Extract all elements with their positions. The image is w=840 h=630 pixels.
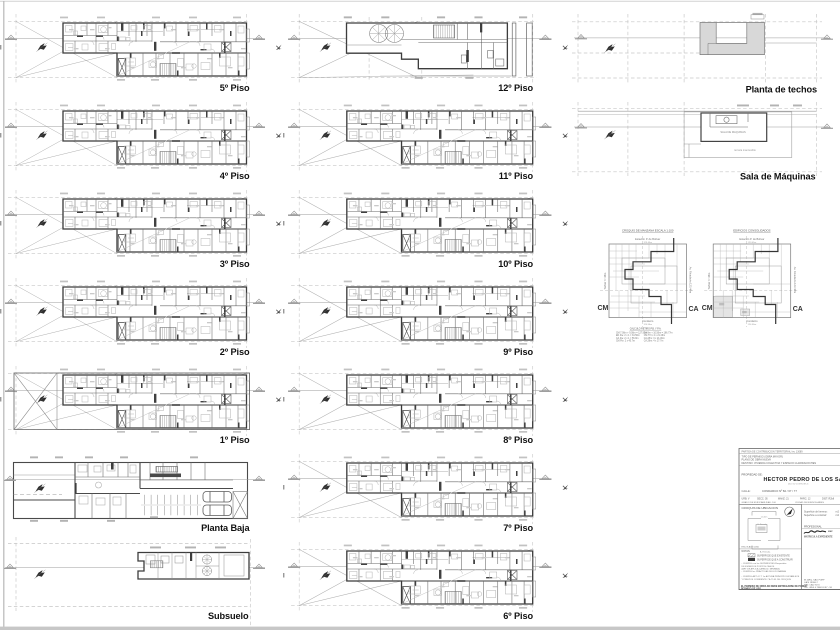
floor plan 8º Piso [283, 366, 568, 436]
svg-text:PARC: 12: PARC: 12 [800, 498, 811, 501]
techos gray roof block [700, 23, 765, 55]
svg-text:2º Piso: 2º Piso [220, 347, 250, 357]
svg-text:Condarco: Condarco [746, 319, 758, 323]
svg-text:CIUDAD DE BUENOS AIRES: CIUDAD DE BUENOS AIRES [795, 501, 824, 504]
Planta Baja lot outline [14, 463, 248, 519]
svg-text:Subsuelo: Subsuelo [208, 611, 249, 621]
svg-text:MATRICULA EXPEDIENTE: MATRICULA EXPEDIENTE [804, 535, 833, 538]
svg-text:CA.28m: 4 x 27.7m: CA.28m: 4 x 27.7m [644, 339, 664, 342]
svg-text:MANZ: 21: MANZ: 21 [778, 498, 789, 501]
floor plan 9º Piso [283, 278, 568, 348]
svg-text:Planta de techos: Planta de techos [746, 85, 817, 95]
croquis de manzana (left) [598, 228, 699, 327]
floor plan 7º Piso [283, 454, 568, 524]
sheet border top edge [0, 0, 840, 2]
floor plan 11º Piso [283, 102, 568, 172]
Planta Baja car 1 [203, 492, 232, 503]
svg-text:CA:9m + 10.56m = 166.77m: CA:9m + 10.56m = 166.77m [644, 332, 673, 335]
svg-text:7º Piso: 7º Piso [503, 523, 533, 533]
svg-text:SUPERFICIE QUE EXISTENTE: SUPERFICIE QUE EXISTENTE [757, 555, 790, 557]
svg-text:- CUMPLE las PRACTICAS DILU: - CUMPLE las PRACTICAS DILUCIONARIAS [742, 570, 787, 573]
svg-text:4º Piso: 4º Piso [220, 171, 250, 181]
svg-text:- CUMPLE con las SUPERFICIE: - CUMPLE con las SUPERFICIES Requeridas [742, 562, 788, 565]
svg-text:CONDARCO Nº 82 / 67 / 77: CONDARCO Nº 82 / 67 / 77 [762, 489, 797, 493]
svg-text:SECC: 05: SECC: 05 [757, 498, 768, 501]
croquis edificios consolidados (right) [702, 228, 803, 327]
sala terrace outline [684, 112, 792, 158]
floor plan Planta Baja [4, 456, 265, 521]
floor plan 6º Piso [283, 542, 568, 612]
1º Piso lot solid boundary [14, 373, 250, 430]
floor plan 3º Piso [0, 190, 282, 260]
svg-text:6º Piso: 6º Piso [503, 611, 533, 621]
right sub panel [801, 504, 803, 589]
svg-text:8º Piso: 8º Piso [503, 435, 533, 445]
svg-text:CROQUIS DE MANZANA ESCALA 1:10: CROQUIS DE MANZANA ESCALA 1:100 [622, 228, 674, 232]
Planta Baja shaft cross box [233, 492, 248, 519]
Subsuelo building outline [138, 553, 249, 580]
svg-text:Yerbal 77.46m: Yerbal 77.46m [707, 273, 711, 290]
svg-text:EDIFICIOS CONSOLIDADOS: EDIFICIOS CONSOLIDADOS [733, 228, 770, 232]
svg-text:Superficie del terreno:: Superficie del terreno: [804, 511, 828, 514]
svg-text:PROPIEDAD DE:: PROPIEDAD DE: [742, 473, 763, 477]
svg-text:DE ESPACIOS PONTOS CASOS: DE ESPACIOS PONTOS CASOS [742, 565, 775, 568]
svg-text:PARTIDA DE CONTRIBUCION TERRIT: PARTIDA DE CONTRIBUCION TERRITORIAL Inv.… [742, 450, 804, 453]
svg-text:DIST: R2bII: DIST: R2bII [822, 498, 835, 501]
svg-text:MAT.: MAT. [828, 530, 833, 533]
svg-text:Superficie a construir:: Superficie a construir: [804, 514, 827, 517]
svg-text:A. Entrada: A. Entrada [760, 550, 771, 553]
svg-text:(ART DE APLICA CAPACID. MI: (ART DE APLICA CAPACID. MINIMAS) [742, 567, 781, 570]
floor plan 2º Piso [0, 278, 282, 348]
svg-text:SALA DE MAQUINAS: SALA DE MAQUINAS [720, 130, 746, 134]
svg-text:CM: CM [598, 305, 609, 312]
floor plan 10º Piso [283, 190, 568, 260]
Subsuelo interior [146, 553, 244, 580]
svg-text:CA: CA [793, 306, 803, 313]
12º Piso machine/fans block [347, 44, 402, 46]
svg-text:GRADO DE EDIFICABILIDAD: 10: GRADO DE EDIFICABILIDAD: 100 [742, 501, 777, 504]
legend hatched [748, 554, 755, 557]
svg-text:S. Parcela: S. Parcela [757, 524, 767, 526]
svg-text:HECTOR PEDRO DE LOS SANTO: HECTOR PEDRO DE LOS SANTO [764, 477, 840, 483]
svg-text:Yerbal 77.46m: Yerbal 77.46m [603, 273, 607, 290]
svg-text:Planta Baja: Planta Baja [201, 523, 250, 533]
svg-text:CA.28m: 3 x 21.46m: CA.28m: 3 x 21.46m [644, 337, 665, 340]
techos tank tab [751, 15, 764, 19]
svg-text:1º Piso: 1º Piso [220, 435, 250, 445]
floor plan 1º Piso [0, 366, 282, 436]
svg-text:DESTINO: VIVIENDA COLECTIVA Y: DESTINO: VIVIENDA COLECTIVA Y ESPACIO GU… [742, 462, 817, 465]
svg-text:5º Piso: 5º Piso [220, 83, 250, 93]
location sketch [748, 512, 780, 550]
svg-text:3º Piso: 3º Piso [220, 259, 250, 269]
1º Piso patio cross box [14, 373, 57, 430]
svg-text:SUPERFICIE QUE A CONSTRUIR: SUPERFICIE QUE A CONSTRUIR [757, 559, 793, 562]
svg-text:10º Piso: 10º Piso [498, 259, 533, 269]
floor plan 5º Piso [0, 14, 282, 84]
svg-text:Estación P. de Bolivar: Estación P. de Bolivar [635, 237, 660, 241]
12º Piso stairs [433, 25, 454, 38]
legend solid [748, 558, 755, 561]
plan Sala de Máquinas [572, 102, 833, 176]
svg-text:Av. Rivadavia 123.46m: Av. Rivadavia 123.46m [793, 267, 797, 293]
svg-text:CALLE:: CALLE: [742, 489, 751, 493]
svg-text:IN. ARQ. SALI PUHF: IN. ARQ. SALI PUHF [804, 578, 825, 581]
svg-text:Condarco: Condarco [642, 319, 654, 323]
12º Piso terrace edge [410, 75, 512, 77]
svg-text:9º Piso: 9º Piso [503, 347, 533, 357]
signature [804, 531, 826, 534]
title block [739, 449, 840, 591]
roof plan Planta de techos [572, 13, 833, 84]
svg-text:terraza inaccesible: terraza inaccesible [734, 148, 756, 152]
svg-text:CM.Fte: 2 x 45.7m: CM.Fte: 2 x 45.7m [616, 339, 635, 342]
svg-text:124.56m: 124.56m [748, 324, 757, 326]
svg-text:PROFESIONAL: PROFESIONAL [804, 525, 822, 528]
Planta Baja driveway [14, 475, 76, 500]
Planta Baja apartment walls [75, 463, 233, 519]
Planta Baja car 2 [203, 505, 232, 516]
svg-text:11º Piso: 11º Piso [499, 171, 534, 181]
Planta Baja parking stripes [141, 495, 201, 516]
12º Piso building outline [347, 23, 508, 69]
sala machine room [701, 113, 767, 141]
svg-text:12.40m: 12.40m [761, 516, 768, 518]
techos parapet line [765, 42, 817, 44]
Planta Baja stair block [156, 467, 178, 473]
svg-text:- CUMPLE ART 4.7.7 La ALTUR: - CUMPLE ART 4.7.7 La ALTURA PRINCIPIO E… [742, 575, 800, 578]
svg-text:Y PREVIOS CORRIENTE 7 A 7: Y PREVIOS CORRIENTE 7 A 75 M. DE CROQUIS [742, 578, 792, 581]
svg-text:CA.Fte: 2 x 1 = 56.8m: CA.Fte: 2 x 1 = 56.8m [616, 337, 638, 340]
svg-text:TEL. 4855 6 78643 8 87 - 58: TEL. 4855 6 78643 8 87 - 58 [804, 587, 833, 589]
compass [785, 507, 795, 517]
floor plan Subsuelo [4, 537, 265, 627]
sheet border bottom strip [0, 627, 840, 630]
svg-text:NOTAS:: NOTAS: [742, 550, 751, 553]
svg-text:CA N 19366-7: CA N 19366-7 [804, 581, 819, 584]
floor plan 12º Piso [288, 14, 568, 84]
svg-text:ESC N ALE 1/200: ESC N ALE 1/200 [742, 546, 760, 549]
svg-text:Av. Rivadavia 123.46m: Av. Rivadavia 123.46m [689, 267, 693, 293]
svg-text:(SU. SU CONYUGE 2): (SU. SU CONYUGE 2) [788, 483, 809, 485]
svg-text:URB: V: URB: V [742, 498, 750, 501]
floor plan 4º Piso [0, 102, 282, 172]
svg-text:Estación P. de Bolivar: Estación P. de Bolivar [739, 237, 764, 241]
svg-text:124.56m: 124.56m [643, 324, 652, 326]
svg-text:CROQUIS DE UBICACION: CROQUIS DE UBICACION [742, 506, 779, 510]
svg-text:MAT. CAU 9174: MAT. CAU 9174 [804, 584, 820, 587]
croquis de ubicacion box [739, 504, 802, 589]
12º Piso side shafts [512, 23, 532, 76]
notes lines [742, 562, 800, 581]
svg-text:CALCULO RETIRO P.B. Y P.A.: CALCULO RETIRO P.B. Y P.A. [630, 328, 662, 331]
svg-text:ED.Fte: 2 x 1 = 34.56m: ED.Fte: 2 x 1 = 34.56m [616, 334, 640, 337]
svg-text:CA: CA [689, 306, 699, 313]
12º Piso interior partitions [402, 23, 508, 69]
svg-text:12º Piso: 12º Piso [498, 83, 533, 93]
sheet border left edge [3, 1, 5, 627]
svg-text:CM: CM [702, 305, 713, 312]
croquis calculation text [616, 328, 673, 343]
svg-text:Sala de Máquinas: Sala de Máquinas [740, 172, 816, 182]
